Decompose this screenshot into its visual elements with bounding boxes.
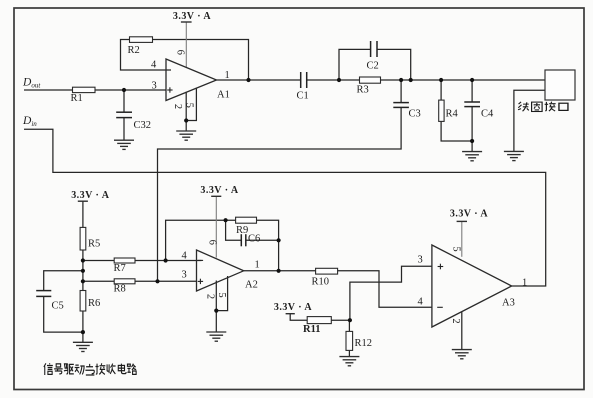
svg-text:R1: R1: [71, 93, 83, 104]
svg-text:5: 5: [183, 103, 194, 108]
svg-text:4: 4: [151, 60, 157, 71]
svg-text:1: 1: [225, 70, 230, 81]
svg-text:3.3V · A: 3.3V · A: [200, 185, 238, 196]
svg-text:3.3V · A: 3.3V · A: [450, 209, 488, 220]
svg-text:2: 2: [172, 104, 183, 109]
svg-text:3.3V · A: 3.3V · A: [71, 190, 109, 201]
svg-text:A2: A2: [245, 280, 258, 291]
svg-text:1: 1: [255, 260, 260, 271]
svg-text:R11: R11: [303, 324, 321, 335]
svg-text:C6: C6: [248, 234, 260, 245]
svg-text:5: 5: [451, 246, 462, 251]
svg-text:R10: R10: [312, 277, 330, 288]
svg-text:R12: R12: [355, 338, 373, 349]
svg-text:R6: R6: [88, 298, 100, 309]
svg-text:C1: C1: [297, 91, 309, 102]
svg-text:C4: C4: [481, 109, 494, 120]
svg-text:2: 2: [450, 318, 461, 323]
svg-text:R8: R8: [114, 284, 126, 295]
svg-text:C5: C5: [52, 301, 64, 312]
svg-text:R2: R2: [128, 45, 140, 56]
svg-text:3: 3: [418, 255, 423, 266]
svg-text:R7: R7: [114, 263, 126, 274]
svg-text:R4: R4: [446, 109, 459, 120]
svg-text:4: 4: [182, 251, 188, 262]
svg-text:6: 6: [207, 240, 218, 245]
svg-text:C2: C2: [367, 61, 379, 72]
svg-text:3: 3: [182, 270, 187, 281]
svg-text:R9: R9: [236, 225, 248, 236]
svg-text:R5: R5: [88, 239, 100, 250]
svg-text:C32: C32: [134, 120, 152, 131]
svg-text:4: 4: [418, 297, 424, 308]
svg-text:6: 6: [174, 50, 185, 55]
svg-text:C3: C3: [409, 109, 421, 120]
svg-text:3.3V · A: 3.3V · A: [173, 11, 211, 22]
svg-text:A1: A1: [217, 90, 230, 101]
svg-text:5: 5: [216, 292, 227, 297]
svg-text:2: 2: [204, 294, 215, 299]
svg-text:R3: R3: [357, 85, 369, 96]
svg-text:A3: A3: [502, 298, 515, 309]
svg-text:3.3V · A: 3.3V · A: [274, 302, 312, 313]
svg-text:1: 1: [522, 278, 527, 289]
svg-text:3: 3: [152, 81, 157, 92]
